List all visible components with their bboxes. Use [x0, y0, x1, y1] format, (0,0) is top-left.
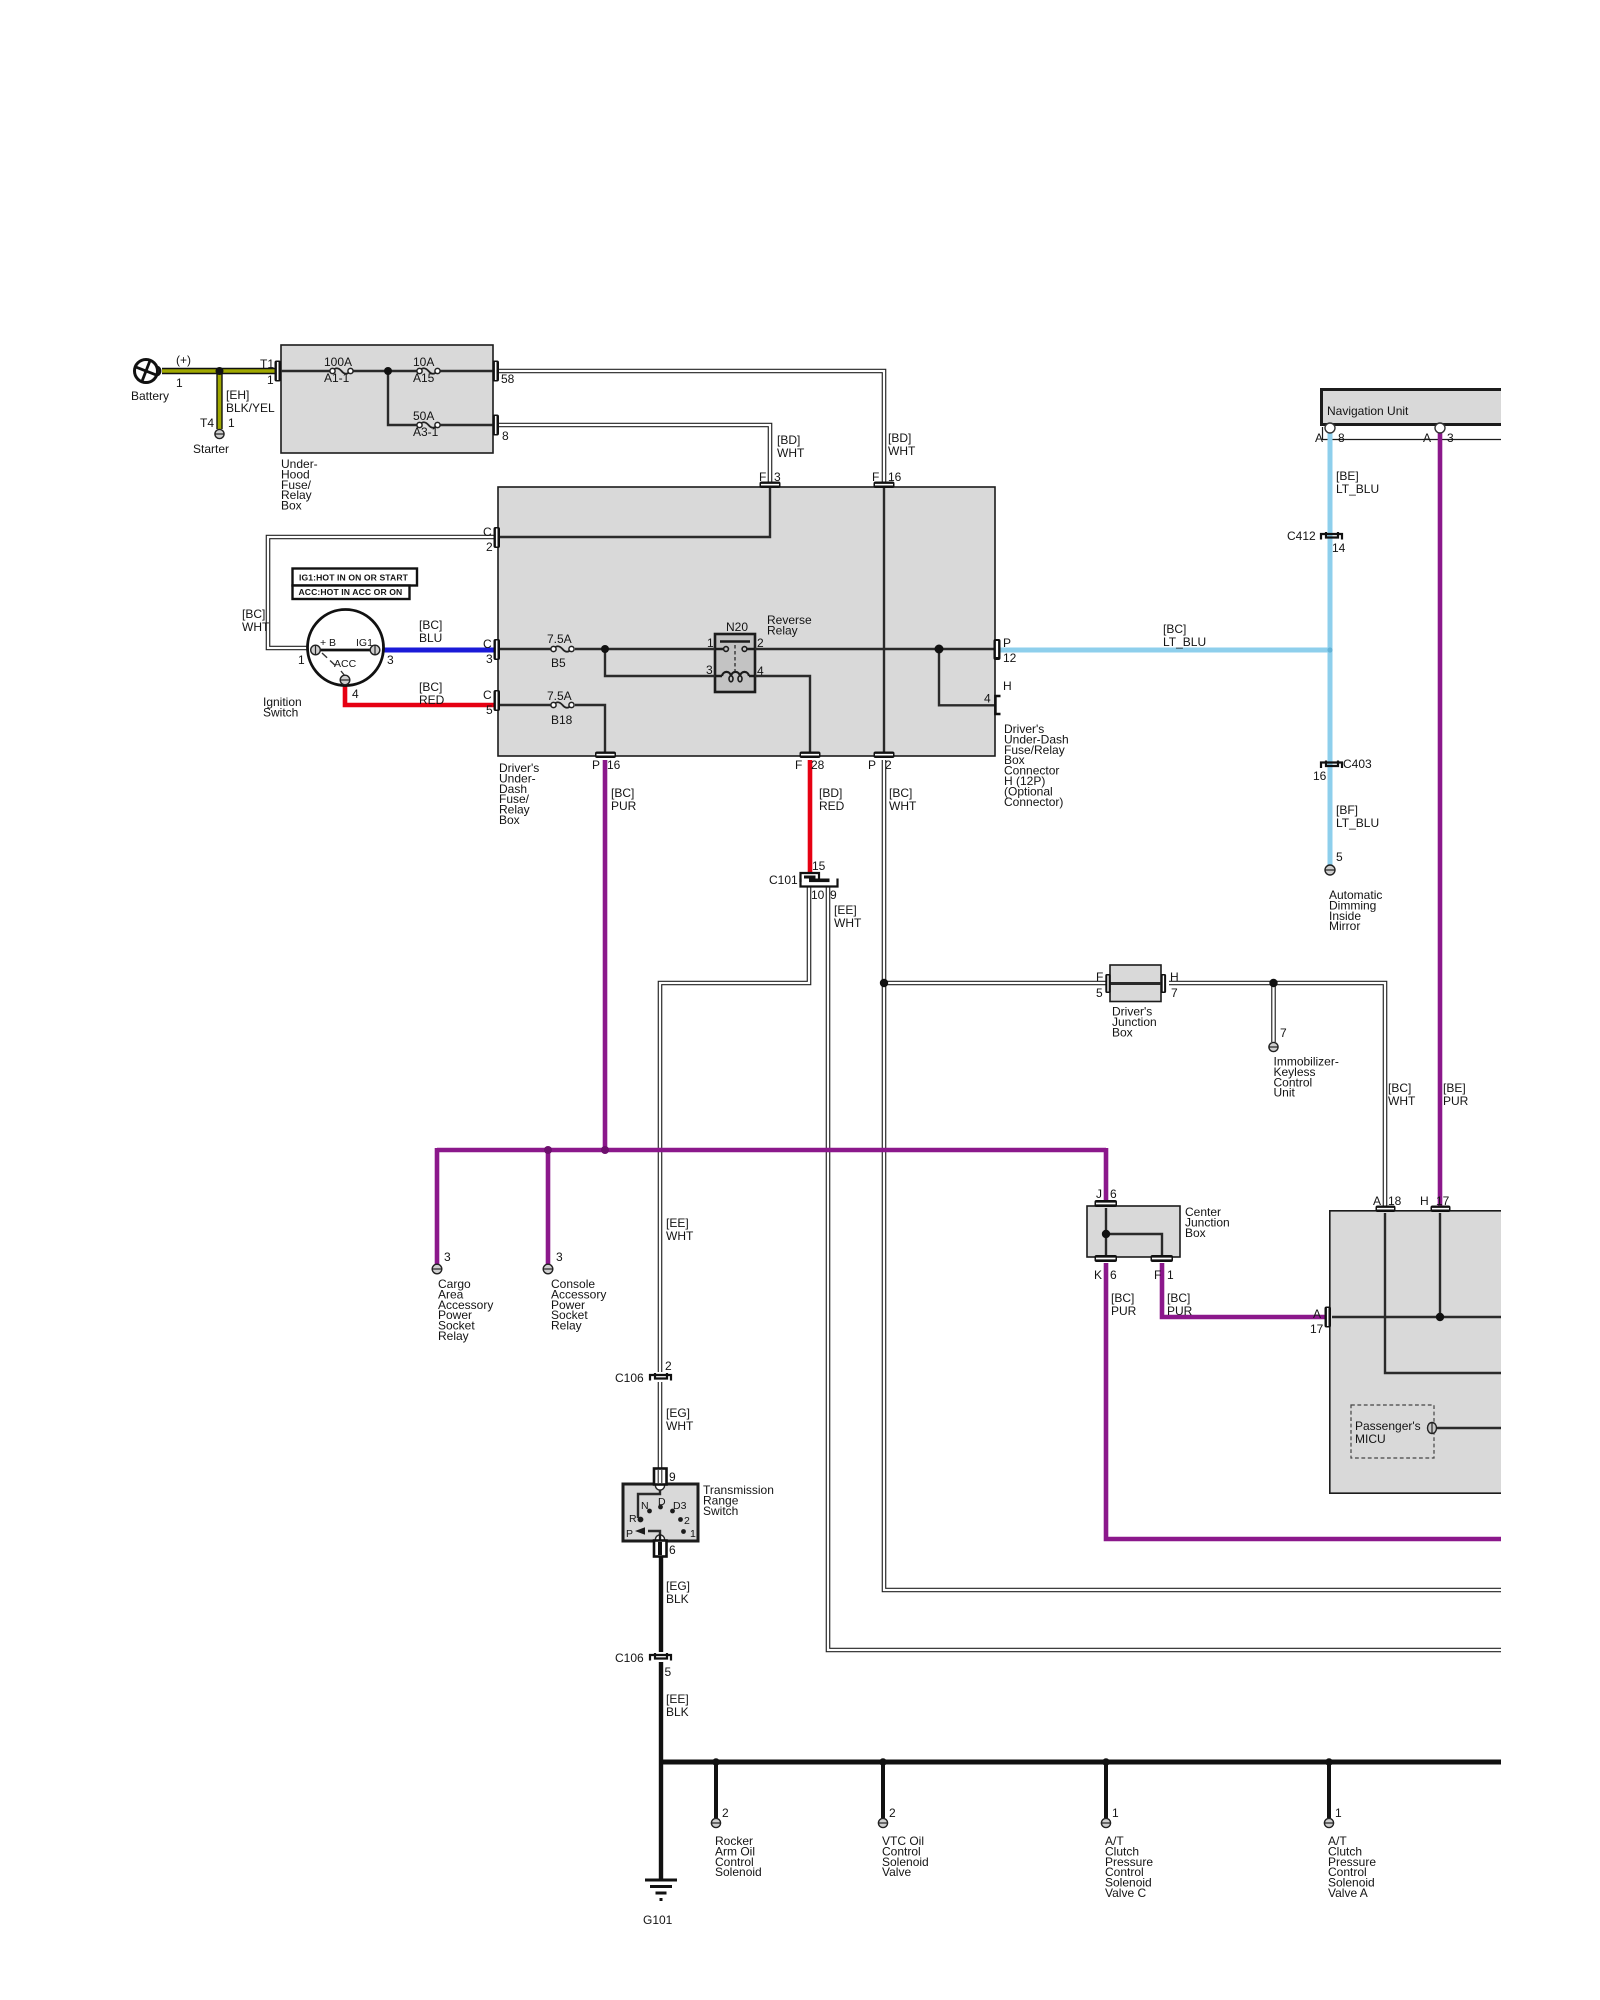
passenger's MICU dashed box [1351, 1405, 1434, 1458]
svg-text:[BE]: [BE] [1443, 1081, 1466, 1095]
svg-text:[BE]: [BE] [1336, 469, 1359, 483]
wire node C down to connector H4 [939, 649, 995, 705]
svg-text:9: 9 [669, 1470, 676, 1484]
svg-text:2: 2 [665, 1359, 672, 1373]
TRS pin6 connector [654, 1534, 667, 1557]
connector F28 [800, 752, 821, 759]
wire WHT branch to driver's junction box F5 [884, 981, 1106, 986]
connector F5 [1105, 974, 1110, 993]
ignition switch dashed ACC link [322, 653, 345, 676]
svg-text:6: 6 [1110, 1187, 1117, 1201]
connector H4 optional [995, 696, 1000, 714]
svg-text:RED: RED [419, 693, 445, 707]
svg-text:3: 3 [387, 653, 394, 667]
svg-text:H: H [1003, 679, 1012, 693]
svg-text:P: P [868, 758, 876, 772]
wire BC PUR F1 down to A17 [1162, 1263, 1325, 1317]
connector C3 [494, 639, 501, 660]
svg-text:1: 1 [176, 376, 183, 390]
svg-text:[BC]: [BC] [1111, 1291, 1134, 1305]
svg-text:PUR: PUR [1167, 1304, 1193, 1318]
svg-text:WHT: WHT [888, 444, 916, 458]
wire node B to relay pin 1 [605, 648, 715, 650]
connector C106 pin2 [650, 1373, 671, 1381]
wire A18 down and right inside passenger box [1385, 1213, 1501, 1373]
svg-text:N: N [641, 1500, 649, 1512]
svg-text:C403: C403 [1343, 757, 1372, 771]
connector H7 [1161, 974, 1166, 993]
connector F3 [760, 482, 781, 489]
svg-text:12: 12 [1003, 651, 1017, 665]
svg-text:2: 2 [722, 1806, 729, 1820]
connector C5 [494, 690, 501, 711]
svg-text:3: 3 [774, 470, 781, 484]
svg-text:16: 16 [607, 758, 621, 772]
svg-text:LT_BLU: LT_BLU [1336, 482, 1379, 496]
wire BC PUR accessory power rail [437, 1148, 1106, 1153]
svg-text:7.5A: 7.5A [547, 689, 572, 703]
wire node A to fuse A15 [388, 370, 417, 372]
starter terminal T4-1 [215, 429, 224, 438]
connector F1 [1151, 1255, 1174, 1262]
connector C106 pin5 [650, 1653, 671, 1661]
svg-text:2: 2 [684, 1515, 690, 1527]
svg-text:[BD]: [BD] [888, 431, 911, 445]
svg-text:PUR: PUR [1111, 1304, 1137, 1318]
cargo relay terminal 3 [432, 1264, 442, 1274]
svg-text:[EE]: [EE] [834, 903, 857, 917]
svg-text:A: A [1423, 431, 1431, 445]
svg-text:2: 2 [757, 636, 764, 650]
svg-text:1: 1 [707, 636, 714, 650]
wire BC WHT C2 to ignition switch terminal 1 [268, 537, 494, 648]
wire fuse B5 to node B [575, 648, 605, 650]
navigation terminal A3 [1435, 423, 1445, 433]
svg-text:5: 5 [665, 1665, 672, 1679]
svg-text:[BC]: [BC] [1167, 1291, 1190, 1305]
wire WHT 58 to F16 [499, 371, 884, 482]
purple junction dot console [544, 1146, 552, 1154]
svg-text:28: 28 [811, 758, 825, 772]
fuse A1-1 100A [330, 368, 353, 374]
ignition terminal IG1 (3) [370, 645, 380, 655]
svg-text:15: 15 [812, 859, 826, 873]
svg-text:3: 3 [486, 652, 493, 666]
svg-text:1: 1 [298, 653, 305, 667]
svg-text:Connector): Connector) [1004, 795, 1063, 809]
driver's junction box [1110, 965, 1161, 1002]
wire EH BLK/YEL battery to T1 [162, 368, 275, 374]
lt-blu junction dot [1327, 647, 1332, 652]
svg-text:C: C [483, 688, 492, 702]
junction node center junction box [1102, 1230, 1110, 1238]
svg-text:5: 5 [1336, 850, 1343, 864]
wire BC PUR K6 down and right to edge [1106, 1263, 1501, 1539]
svg-text:C106: C106 [615, 1371, 644, 1385]
svg-text:[BF]: [BF] [1336, 803, 1358, 817]
svg-text:Box: Box [1185, 1226, 1206, 1240]
connector C412 [1321, 532, 1342, 540]
svg-text:Starter: Starter [193, 442, 229, 456]
battery symbol [132, 357, 160, 384]
svg-text:3: 3 [706, 663, 713, 677]
solenoid terminal AT C [1101, 1818, 1110, 1827]
svg-text:ACC: ACC [334, 658, 357, 670]
svg-text:3: 3 [1447, 431, 1454, 445]
svg-text:R: R [629, 1513, 637, 1525]
navigation unit box [1320, 388, 1501, 426]
svg-text:F: F [1154, 1268, 1161, 1282]
svg-text:Battery: Battery [131, 389, 169, 403]
driver's under-dash fuse/relay box [498, 487, 995, 756]
connector C403 [1321, 761, 1342, 769]
svg-text:[BD]: [BD] [777, 433, 800, 447]
wire node B down to relay pin 3 [605, 649, 715, 676]
svg-text:A15: A15 [413, 371, 435, 385]
svg-text:18: 18 [1388, 1194, 1402, 1208]
reverse relay N20 internals [715, 642, 755, 682]
svg-text:Solenoid: Solenoid [715, 1865, 762, 1879]
wire node A down to fuse A3-1 [388, 371, 417, 425]
svg-text:1: 1 [1112, 1806, 1119, 1820]
TRS pin9 connector [654, 1469, 667, 1491]
svg-text:[EG]: [EG] [666, 1579, 690, 1593]
ignition terminal 1 [311, 645, 321, 655]
svg-text:P: P [592, 758, 600, 772]
wire WHT immobilizer node down to terminal 7 [1271, 983, 1276, 1042]
svg-text:C: C [483, 637, 492, 651]
svg-text:PUR: PUR [611, 799, 637, 813]
svg-text:[EE]: [EE] [666, 1216, 689, 1230]
svg-text:[EH]: [EH] [226, 388, 249, 402]
junction node C (P12 branch) [935, 645, 944, 654]
svg-text:6: 6 [1110, 1268, 1117, 1282]
navigation terminal A8 [1325, 423, 1335, 433]
svg-text:LT_BLU: LT_BLU [1163, 635, 1206, 649]
svg-text:8: 8 [1338, 431, 1345, 445]
wire BC PUR rail down to console relay [546, 1150, 551, 1264]
svg-text:17: 17 [1310, 1322, 1324, 1336]
immobilizer terminal 7 [1269, 1042, 1278, 1051]
junction node A (fuse split) [384, 367, 392, 375]
svg-text:F: F [1096, 970, 1103, 984]
wire A17 right across passenger box [1332, 1316, 1501, 1318]
ground symbol G101 [645, 1880, 677, 1900]
svg-text:Valve: Valve [882, 1865, 911, 1879]
solenoid terminal VTC [878, 1818, 887, 1827]
wire fuse B18 to P16 [575, 705, 605, 752]
connector P12 [994, 639, 1001, 660]
connector 8 [493, 415, 500, 436]
svg-text:Unit: Unit [1274, 1086, 1296, 1100]
fuse B5 7.5A [551, 646, 574, 652]
junction node F5 branch [880, 979, 888, 987]
fuse B18 7.5A [551, 702, 574, 708]
svg-text:4: 4 [757, 664, 764, 678]
passenger's under-dash fuse/relay box [1329, 1210, 1501, 1494]
ground bus [661, 1760, 1501, 1765]
junction nodes on ground bus [712, 1758, 720, 1766]
svg-text:RED: RED [819, 799, 845, 813]
svg-text:WHT: WHT [242, 620, 270, 634]
fuse A3-1 50A [417, 422, 440, 428]
wire BC PUR rail to center junction box J6 [1104, 1148, 1109, 1200]
wire fuse A1-1 to node A [352, 370, 388, 372]
MICU terminal [1428, 1423, 1437, 1434]
solenoid terminal rocker arm [711, 1818, 720, 1827]
connector A17 [1325, 1307, 1332, 1328]
svg-text:1: 1 [1167, 1268, 1174, 1282]
solenoid drop wire 4 [1327, 1762, 1331, 1818]
svg-text:IG1:HOT IN ON OR START: IG1:HOT IN ON OR START [299, 573, 409, 583]
svg-text:A: A [1315, 431, 1323, 445]
connector H17 [1431, 1206, 1451, 1213]
svg-text:Mirror: Mirror [1329, 919, 1360, 933]
wire relay pin 4 to F28 [755, 676, 810, 752]
svg-text:6: 6 [669, 1543, 676, 1557]
svg-text:5: 5 [486, 703, 493, 717]
wire C3 to fuse B5 [500, 648, 551, 650]
wire WHT H7 to immobilizer node and A18 [1169, 983, 1385, 1206]
svg-text:[BC]: [BC] [242, 607, 265, 621]
svg-text:Box: Box [281, 499, 302, 513]
svg-text:BLK/YEL: BLK/YEL [226, 401, 275, 415]
svg-text:50A: 50A [413, 409, 434, 423]
svg-text:A: A [1373, 1194, 1381, 1208]
svg-text:D3: D3 [673, 1500, 687, 1512]
svg-text:[BC]: [BC] [889, 786, 912, 800]
svg-text:16: 16 [1313, 769, 1327, 783]
svg-text:C412: C412 [1287, 529, 1316, 543]
wire EE WHT C101 pin10 down-left to C106 pin2 [660, 887, 809, 1372]
svg-text:J: J [1096, 1187, 1102, 1201]
ACC hot-in note box [293, 586, 410, 600]
wire BC WHT P2 down and right to edge [884, 760, 1501, 1590]
TRS position dots [647, 1505, 686, 1534]
svg-text:A3-1: A3-1 [413, 425, 439, 439]
svg-text:H: H [1420, 1194, 1429, 1208]
svg-text:WHT: WHT [889, 799, 917, 813]
svg-text:D: D [658, 1496, 666, 1508]
ignition terminal ACC (4) [340, 675, 350, 685]
svg-text:1: 1 [228, 416, 235, 430]
svg-text:100A: 100A [324, 355, 352, 369]
svg-text:(+): (+) [176, 353, 191, 367]
svg-text:[BC]: [BC] [1388, 1081, 1411, 1095]
under-hood fuse/relay box [281, 345, 493, 453]
connector P2 [874, 752, 895, 759]
transmission range switch box [623, 1484, 698, 1541]
svg-text:4: 4 [984, 692, 991, 706]
svg-text:WHT: WHT [1388, 1094, 1416, 1108]
svg-text:3: 3 [556, 1250, 563, 1264]
EG BLK wire TRS pin6 to C106 [659, 1550, 663, 1652]
wire EH BLK/YEL branch to starter [216, 371, 222, 429]
svg-text:17: 17 [1436, 1194, 1450, 1208]
svg-text:WHT: WHT [666, 1229, 694, 1243]
connector P16 [595, 752, 616, 759]
navigation unit connector-A bracket [1323, 427, 1502, 440]
mirror terminal 5 [1325, 865, 1335, 875]
purple junction dot P16 [601, 1146, 609, 1154]
wire BE/BF LT_BLU navigation A8 to mirror [1328, 430, 1333, 865]
svg-text:Relay: Relay [767, 624, 798, 638]
svg-text:Valve A: Valve A [1328, 1886, 1368, 1900]
svg-text:C106: C106 [615, 1651, 644, 1665]
wire H17 down to node D [1439, 1213, 1441, 1317]
svg-text:9: 9 [830, 888, 837, 902]
wire BD RED F28 to C101 pin15 [808, 760, 813, 874]
svg-text:F: F [795, 758, 802, 772]
wire C5 to fuse B18 [500, 704, 551, 706]
svg-text:Valve C: Valve C [1105, 1886, 1146, 1900]
svg-text:ACC:HOT IN ACC OR ON: ACC:HOT IN ACC OR ON [299, 587, 403, 597]
connector 58 [493, 361, 500, 382]
svg-text:+ B: + B [320, 637, 336, 649]
junction node battery/starter [216, 367, 224, 375]
wire inside center junction box J6 to K6 and F1 [1105, 1208, 1107, 1255]
svg-text:10: 10 [811, 888, 825, 902]
svg-text:7.5A: 7.5A [547, 632, 572, 646]
ignition switch wiper +B to IG1 [316, 649, 375, 652]
EE BLK wire C106 to ground G101 [659, 1662, 663, 1879]
connector J6 [1095, 1200, 1118, 1207]
svg-text:2: 2 [889, 1806, 896, 1820]
svg-text:5: 5 [1096, 986, 1103, 1000]
svg-text:C101: C101 [769, 873, 798, 887]
wire relay pin 2 to node C and P12 [755, 648, 995, 650]
svg-text:BLK: BLK [666, 1592, 689, 1606]
connector C2 [494, 527, 501, 548]
junction node H17/A17 [1436, 1313, 1444, 1321]
connector T1 [275, 361, 282, 382]
wire BE PUR navigation A3 to H17 [1438, 430, 1443, 1206]
connector C101 [801, 873, 838, 887]
svg-text:T4: T4 [200, 416, 214, 430]
svg-text:Passenger's: Passenger's [1355, 1419, 1421, 1433]
wire BC PUR rail down to cargo relay [435, 1148, 440, 1264]
wire passenger MICU output [1437, 1427, 1501, 1429]
svg-text:8: 8 [502, 429, 509, 443]
solenoid drop wire 1 [714, 1762, 718, 1818]
svg-text:Relay: Relay [551, 1319, 582, 1333]
connector A18 [1376, 1206, 1396, 1213]
solenoid drop wire 3 [1104, 1762, 1108, 1818]
junction node B (B5 out) [601, 645, 609, 653]
wire WHT 8 to F3 [499, 425, 770, 482]
wire fuse A15 to connector 58 [440, 370, 493, 372]
svg-text:[BC]: [BC] [611, 786, 634, 800]
svg-text:WHT: WHT [834, 916, 862, 930]
center junction box [1087, 1206, 1180, 1257]
svg-text:[BC]: [BC] [419, 618, 442, 632]
connector F16 [874, 482, 895, 489]
svg-text:A1-1: A1-1 [324, 371, 350, 385]
svg-text:B5: B5 [551, 656, 566, 670]
solenoid terminal AT A [1324, 1818, 1333, 1827]
TRS R contact blob [638, 1517, 644, 1523]
svg-text:P: P [1003, 636, 1011, 650]
svg-text:1: 1 [690, 1528, 696, 1540]
svg-text:K: K [1094, 1268, 1102, 1282]
wire inside driver's junction box F5-H7 [1110, 982, 1161, 985]
junction node immobilizer branch [1269, 979, 1277, 987]
svg-text:BLK: BLK [666, 1705, 689, 1719]
svg-text:IG1: IG1 [356, 637, 373, 649]
svg-text:Box: Box [499, 813, 520, 827]
IG1 hot-in note box [293, 569, 418, 586]
svg-text:58: 58 [501, 372, 515, 386]
svg-text:LT_BLU: LT_BLU [1336, 816, 1379, 830]
wire TRS P contact to pin6 [648, 1531, 660, 1536]
svg-text:2: 2 [486, 540, 493, 554]
svg-text:1: 1 [267, 373, 274, 387]
svg-text:10A: 10A [413, 355, 434, 369]
svg-text:[BC]: [BC] [419, 680, 442, 694]
svg-text:2: 2 [885, 758, 892, 772]
wire fuse A3-1 to connector 8 [440, 424, 493, 426]
connector K6 [1095, 1255, 1118, 1262]
TRS P arrow [635, 1527, 645, 1535]
wire EG WHT C106 pin2 to TRS pin9 [658, 1382, 663, 1484]
wire EE WHT C101 pin9 down and right to edge [828, 887, 1501, 1650]
svg-text:G101: G101 [643, 1913, 673, 1927]
ignition switch circle [308, 610, 384, 686]
wire BC BLU ignition IG1 to C3 [380, 648, 494, 653]
svg-text:7: 7 [1171, 986, 1178, 1000]
svg-text:Navigation Unit: Navigation Unit [1327, 404, 1409, 418]
svg-text:Switch: Switch [703, 1504, 738, 1518]
svg-text:PUR: PUR [1443, 1094, 1469, 1108]
svg-text:MICU: MICU [1355, 1432, 1386, 1446]
svg-text:N20: N20 [726, 620, 748, 634]
svg-text:F: F [759, 470, 766, 484]
fuse A15 10A [417, 368, 440, 374]
wire C2 to F3 inside driver's box [500, 488, 770, 537]
svg-text:[EE]: [EE] [666, 1692, 689, 1706]
svg-text:[BD]: [BD] [819, 786, 842, 800]
svg-text:P: P [626, 1528, 633, 1540]
wire F16 to P2 inside driver's box [883, 488, 885, 752]
svg-text:C: C [483, 525, 492, 539]
svg-text:T1: T1 [260, 357, 274, 371]
svg-text:A: A [1313, 1307, 1321, 1321]
svg-text:Relay: Relay [438, 1329, 469, 1343]
svg-text:H: H [1170, 970, 1179, 984]
svg-text:Box: Box [1112, 1025, 1133, 1039]
svg-text:B18: B18 [551, 713, 573, 727]
svg-text:[EG]: [EG] [666, 1406, 690, 1420]
wire T1 to fuse A1-1 [281, 370, 330, 372]
svg-text:3: 3 [444, 1250, 451, 1264]
svg-text:7: 7 [1280, 1026, 1287, 1040]
svg-text:Switch: Switch [263, 705, 298, 719]
console relay terminal 3 [543, 1264, 553, 1274]
svg-text:1: 1 [1335, 1806, 1342, 1820]
wire BC RED ignition ACC to C5 [345, 684, 494, 705]
svg-text:4: 4 [352, 687, 359, 701]
wire TRS pin9 to R contact [638, 1489, 660, 1518]
svg-text:BLU: BLU [419, 631, 442, 645]
wire BC LT_BLU P12 to junction [1000, 648, 1330, 653]
svg-text:14: 14 [1332, 541, 1346, 555]
wire BC PUR P16 down [603, 760, 608, 1150]
svg-text:F: F [872, 470, 879, 484]
svg-text:WHT: WHT [777, 446, 805, 460]
svg-text:16: 16 [888, 470, 902, 484]
svg-text:[BC]: [BC] [1163, 622, 1186, 636]
reverse relay N20 box [715, 634, 755, 692]
